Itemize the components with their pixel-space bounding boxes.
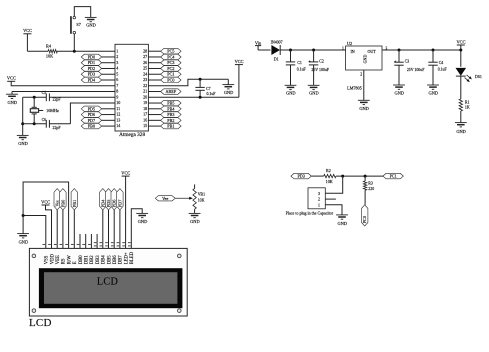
node crystal top	[33, 96, 36, 99]
svg-text:6: 6	[116, 77, 118, 82]
svg-text:C1: C1	[297, 61, 302, 65]
node C7 bottom	[199, 96, 202, 99]
svg-text:OUT: OUT	[367, 49, 376, 54]
svg-text:PD7: PD7	[117, 200, 122, 208]
svg-text:4: 4	[116, 66, 118, 71]
svg-text:C6: C6	[42, 118, 46, 122]
wire pin 19 stub	[148, 102, 160, 104]
node PB1	[161, 123, 182, 129]
svg-text:GND: GND	[286, 91, 296, 96]
wire DB2 stub	[90, 234, 92, 248]
ground (header)	[336, 215, 348, 226]
svg-text:12: 12	[116, 112, 120, 117]
wire junction a to header	[325, 176, 342, 193]
wire VCC stem	[26, 34, 28, 51]
power flag VCC (backlight)	[121, 171, 130, 249]
node junction a	[341, 175, 344, 178]
diode D1 IN4007	[271, 40, 283, 61]
svg-text:15: 15	[143, 123, 147, 128]
wire RS stub	[62, 210, 64, 249]
node PB0	[81, 123, 102, 129]
svg-text:LM7805: LM7805	[347, 85, 362, 90]
node crystal bottom	[33, 122, 36, 125]
resistor R3	[363, 181, 374, 191]
wire pin 4 stub	[102, 67, 115, 69]
wire header pin 2 stub	[325, 198, 336, 200]
svg-text:VEE: VEE	[56, 255, 61, 264]
svg-text:Place to plug in the Capacitor: Place to plug in the Capacitor	[286, 210, 334, 215]
svg-text:R2: R2	[326, 168, 331, 173]
svg-text:GND: GND	[19, 239, 29, 244]
svg-text:PC0: PC0	[167, 77, 174, 82]
svg-text:25V 100uF: 25V 100uF	[311, 68, 329, 72]
power flag VCC (pin 7)	[7, 76, 16, 82]
ground (C4)	[427, 85, 439, 95]
svg-text:21: 21	[143, 89, 147, 94]
svg-text:25V 100uF: 25V 100uF	[407, 68, 425, 72]
wire pin 15 stub	[148, 125, 160, 127]
svg-text:BLED: BLED	[130, 251, 135, 264]
node PB2	[161, 118, 182, 124]
node PD1	[81, 60, 102, 66]
svg-text:PD6: PD6	[112, 200, 117, 208]
svg-text:GND: GND	[456, 129, 466, 134]
wire pin 28 stub	[148, 50, 160, 52]
svg-text:16: 16	[143, 117, 147, 122]
svg-text:VDD: VDD	[50, 253, 55, 264]
svg-text:GND: GND	[359, 106, 369, 111]
svg-text:28: 28	[143, 48, 147, 53]
power flag VCC (reset pull-up)	[23, 28, 32, 34]
svg-text:PB2: PB2	[167, 118, 174, 123]
svg-text:PC5: PC5	[167, 49, 174, 54]
wire pin 24 stub	[148, 73, 160, 75]
svg-text:19: 19	[143, 100, 147, 105]
node PB4	[161, 106, 182, 112]
ground (C2)	[308, 85, 320, 95]
wire XTAL1 net (pin 9)	[23, 96, 115, 98]
svg-text:D1: D1	[274, 57, 279, 62]
capacitor C6 22pF	[42, 118, 62, 130]
wire pin 2 stub	[102, 56, 115, 58]
svg-text:3: 3	[116, 60, 118, 65]
svg-text:LCD: LCD	[97, 276, 118, 287]
ground (pin 22)	[222, 79, 234, 95]
ground (pin 8)	[6, 92, 18, 105]
svg-text:22pF: 22pF	[53, 126, 62, 130]
node PB1 (LCD E)	[71, 189, 77, 210]
header J1 (capacitor socket)	[308, 188, 325, 209]
node PC5	[161, 48, 182, 54]
node PC0	[161, 77, 182, 83]
capacitor C2 100uF	[308, 50, 330, 85]
svg-text:14: 14	[116, 123, 120, 128]
svg-text:R/W: R/W	[67, 255, 72, 264]
svg-text:DB5: DB5	[107, 255, 112, 265]
svg-text:PD2: PD2	[88, 66, 95, 71]
svg-text:DB1: DB1	[85, 255, 90, 265]
node Vee (pot)	[155, 196, 175, 201]
node PD4	[81, 77, 102, 83]
svg-text:RS: RS	[62, 258, 67, 264]
svg-text:18: 18	[143, 106, 147, 111]
LED DS1	[456, 68, 482, 82]
node VCC rail	[459, 49, 462, 52]
svg-text:LCD: LCD	[29, 317, 52, 329]
svg-text:10K: 10K	[198, 199, 205, 203]
pushbutton S7	[70, 16, 81, 34]
wire BLED to GND	[131, 209, 142, 249]
wire pin 14 stub	[102, 125, 115, 127]
IC U1 Atmega 328	[115, 44, 148, 138]
svg-text:VCC: VCC	[41, 199, 50, 204]
node PC1 (cap meter)	[383, 173, 404, 179]
svg-text:PB1: PB1	[72, 200, 77, 207]
svg-text:PC0: PC0	[362, 216, 367, 223]
ground (switch)	[85, 17, 97, 27]
wire DB1 stub	[85, 234, 87, 248]
svg-text:23: 23	[143, 77, 147, 82]
resistor VR1 10K	[193, 184, 205, 209]
svg-text:DB0: DB0	[79, 255, 84, 265]
svg-text:26: 26	[143, 60, 147, 65]
power input Vin	[255, 40, 262, 50]
svg-text:C3: C3	[405, 60, 410, 64]
svg-text:DS1: DS1	[475, 75, 482, 79]
node PD5 (LCD)	[105, 189, 111, 210]
power flag VCC (LCD VDD)	[41, 199, 50, 205]
node PD5	[81, 106, 102, 112]
svg-text:PB0: PB0	[60, 200, 65, 207]
svg-text:2: 2	[318, 198, 320, 202]
svg-text:DB4: DB4	[102, 255, 107, 265]
capacitor C7 0.1uF	[195, 79, 216, 97]
wire DB4 stub	[102, 210, 104, 249]
node rail bottom	[21, 122, 24, 125]
node C4 top	[432, 49, 435, 52]
svg-text:7: 7	[116, 83, 118, 88]
node PD3	[81, 71, 102, 77]
svg-text:1: 1	[342, 46, 344, 50]
node C2 top	[312, 49, 315, 52]
svg-text:IN4007: IN4007	[271, 40, 283, 44]
svg-text:PD5: PD5	[88, 106, 95, 111]
svg-text:C4: C4	[439, 61, 444, 65]
svg-text:PD6: PD6	[88, 112, 95, 117]
ground (VR1)	[189, 213, 201, 224]
svg-text:PD4: PD4	[100, 199, 105, 207]
wire pin 18 stub	[148, 108, 160, 110]
wire GND drop	[22, 216, 24, 234]
ground (U2)	[358, 100, 370, 111]
svg-text:PC1: PC1	[390, 174, 397, 179]
svg-text:+: +	[394, 59, 397, 64]
svg-text:0.1uF: 0.1uF	[297, 68, 307, 72]
node AREF	[161, 89, 182, 95]
svg-text:220: 220	[368, 187, 374, 191]
svg-text:GND: GND	[429, 90, 439, 95]
wire header pin 1 to GND	[325, 205, 342, 215]
node PD4 (LCD)	[100, 189, 106, 210]
wire DB6 stub	[113, 210, 115, 249]
wire pin 16 stub	[148, 119, 160, 121]
svg-text:E: E	[73, 261, 78, 264]
wire pin 13 stub	[102, 119, 115, 121]
node PC1	[161, 71, 182, 77]
svg-text:2: 2	[116, 54, 118, 59]
wire VEE stub	[56, 210, 58, 249]
wire pin 20 to VCC	[148, 96, 239, 98]
svg-text:1: 1	[116, 48, 118, 53]
svg-text:C7: C7	[206, 87, 211, 91]
wire pin 21 stub	[148, 91, 160, 93]
svg-text:27: 27	[143, 54, 147, 59]
resistor R4	[46, 44, 58, 59]
svg-text:17: 17	[143, 112, 147, 117]
svg-text:2: 2	[360, 73, 362, 77]
node PB0 (LCD RS)	[60, 189, 66, 210]
wire pin 26 stub	[148, 62, 160, 64]
wire pin 12 stub	[102, 114, 115, 116]
node PB5	[161, 100, 182, 106]
label LCD	[29, 317, 52, 329]
capacitor C1 0.1uF	[286, 50, 307, 85]
wire U2 OUT to VCC	[382, 49, 461, 51]
wire R1 to GND	[460, 111, 462, 123]
wire R2 to PC1	[336, 175, 383, 177]
svg-text:16MHz: 16MHz	[46, 108, 59, 113]
svg-text:GND: GND	[190, 219, 200, 224]
svg-text:5: 5	[116, 71, 118, 76]
wire Vin to D1	[258, 49, 270, 51]
svg-text:PB1: PB1	[167, 124, 174, 129]
svg-text:AREF: AREF	[166, 89, 177, 94]
wire reset net to pin 1	[27, 50, 115, 52]
ground (crystal)	[17, 135, 29, 146]
svg-text:GND: GND	[18, 141, 28, 146]
svg-text:VCC: VCC	[121, 171, 130, 176]
svg-text:LED+: LED+	[124, 252, 129, 264]
svg-text:PD0: PD0	[88, 54, 95, 59]
svg-text:S7: S7	[76, 22, 80, 27]
svg-text:Vee: Vee	[162, 196, 168, 201]
svg-text:10K: 10K	[46, 54, 53, 59]
node PD7 (LCD)	[117, 189, 123, 210]
svg-text:GND: GND	[86, 23, 96, 28]
svg-text:PD4: PD4	[88, 77, 95, 82]
wire pin 3 stub	[102, 62, 115, 64]
wire DB0 stub	[79, 234, 81, 248]
wire VR1 to GND	[194, 209, 196, 213]
svg-text:PC2: PC2	[167, 66, 174, 71]
node PC0 (cap meter)	[362, 205, 368, 226]
svg-text:13: 13	[116, 117, 120, 122]
svg-text:25: 25	[143, 66, 147, 71]
resistor R1	[459, 99, 470, 111]
node C7 top	[199, 78, 202, 81]
wire R/W ground loop	[23, 182, 69, 248]
svg-text:R3: R3	[368, 182, 373, 186]
node junction b	[364, 175, 367, 178]
svg-text:R1: R1	[465, 100, 470, 104]
wire Vee wiper arrow	[175, 197, 193, 200]
ground (R1)	[455, 123, 467, 135]
svg-text:PD3: PD3	[88, 72, 95, 77]
wire DB5 stub	[108, 210, 110, 249]
svg-text:U2: U2	[347, 41, 352, 46]
svg-text:1K: 1K	[465, 106, 470, 110]
regulator U2 LM7805	[342, 41, 387, 90]
svg-text:DB6: DB6	[113, 255, 118, 265]
resistor R2	[324, 168, 336, 184]
svg-text:22pF: 22pF	[53, 98, 62, 102]
node PD2	[81, 66, 102, 72]
svg-text:VCC: VCC	[456, 39, 465, 44]
wire PD3 to R2	[311, 175, 323, 177]
wire pin 11 stub	[102, 108, 115, 110]
wire DB7 stub	[119, 210, 121, 249]
svg-text:GND: GND	[338, 221, 348, 226]
svg-text:22: 22	[143, 83, 147, 88]
svg-text:8: 8	[116, 89, 118, 94]
wire pin 17 stub	[148, 114, 160, 116]
svg-text:VCC: VCC	[235, 59, 244, 64]
node PD7	[81, 118, 102, 124]
power flag VCC (AVCC)	[235, 59, 244, 97]
svg-text:PD5: PD5	[106, 200, 111, 208]
svg-text:10K: 10K	[326, 179, 333, 184]
svg-text:GND: GND	[395, 90, 405, 95]
ground (LCD VSS)	[17, 234, 29, 245]
svg-text:PB3: PB3	[167, 112, 174, 117]
node C3 top	[398, 49, 401, 52]
power flag VCC (5V rail)	[456, 39, 465, 66]
node PC3	[161, 60, 182, 66]
svg-text:GND: GND	[224, 90, 234, 95]
svg-text:0.1uF: 0.1uF	[438, 68, 448, 72]
svg-text:C2: C2	[319, 59, 324, 63]
svg-text:VCC: VCC	[23, 28, 32, 33]
wire pin 6 stub	[102, 79, 115, 81]
wire pin 23 stub	[148, 79, 160, 81]
wire GND to pin 8	[12, 91, 115, 93]
wire VCC to pin 7	[11, 81, 115, 85]
svg-text:9: 9	[116, 94, 118, 99]
wire U2 GND	[363, 70, 365, 100]
node PC4	[161, 54, 182, 60]
svg-text:+: +	[308, 58, 311, 63]
svg-text:Vin: Vin	[255, 40, 262, 45]
label plug note	[286, 210, 334, 215]
svg-text:3: 3	[318, 192, 320, 196]
node C1 top	[289, 49, 292, 52]
wire D1 to U2 IN	[280, 49, 346, 51]
wire R3 to PC0	[364, 190, 366, 205]
svg-text:GND: GND	[8, 100, 18, 105]
wire XTAL2 net (pin 10)	[23, 103, 115, 124]
wire DB3 stub	[96, 234, 98, 248]
node PC2	[161, 66, 182, 72]
svg-text:PC1: PC1	[167, 72, 174, 77]
svg-text:GND: GND	[138, 219, 148, 224]
wire pin 25 stub	[148, 67, 160, 69]
wire pin 22 to GND	[148, 79, 228, 85]
svg-text:DB2: DB2	[90, 255, 95, 265]
svg-text:Atmega 328: Atmega 328	[119, 132, 145, 138]
wire LED to R1	[460, 76, 462, 99]
svg-text:GND: GND	[363, 55, 368, 64]
wire pin 5 stub	[102, 73, 115, 75]
svg-text:IN: IN	[350, 49, 354, 54]
svg-text:VCC: VCC	[7, 76, 16, 81]
node PD6	[81, 112, 102, 118]
node VSS/GND junction	[22, 214, 25, 217]
ground (backlight)	[136, 213, 148, 224]
capacitor C3 100uF	[394, 50, 425, 85]
node Vee (LCD)	[54, 189, 60, 210]
wire pin 27 stub	[148, 56, 160, 58]
label LCD pin numbers	[43, 243, 131, 246]
svg-text:PC4: PC4	[167, 54, 174, 59]
svg-text:10: 10	[116, 100, 120, 105]
svg-text:24: 24	[143, 71, 147, 76]
svg-text:1: 1	[318, 203, 320, 207]
wire switch top to GND	[74, 7, 90, 18]
svg-text:DB3: DB3	[96, 255, 101, 265]
wire junction b to R3	[364, 176, 366, 181]
svg-text:20: 20	[143, 94, 147, 99]
wire switch to reset	[73, 34, 75, 51]
svg-text:PB5: PB5	[167, 100, 174, 105]
wire VDD to VCC	[46, 205, 52, 248]
ground (C1)	[285, 85, 297, 95]
svg-text:PD3: PD3	[297, 174, 304, 179]
svg-text:VR1: VR1	[198, 193, 205, 197]
crystal Y1 16MHz	[30, 97, 59, 124]
LCD module	[29, 248, 187, 316]
node PD3 (cap meter)	[291, 173, 312, 179]
node PD6 (LCD)	[111, 189, 117, 210]
svg-text:PB4: PB4	[167, 106, 174, 111]
svg-text:11: 11	[116, 106, 120, 111]
capacitor C4 0.1uF	[428, 50, 447, 85]
svg-text:0.1uF: 0.1uF	[207, 92, 217, 96]
svg-text:PD1: PD1	[88, 60, 95, 65]
svg-text:C5: C5	[42, 91, 46, 95]
node PB3	[161, 112, 182, 118]
svg-text:PC3: PC3	[167, 60, 174, 65]
svg-text:GND: GND	[309, 91, 319, 96]
svg-text:VSS: VSS	[45, 255, 50, 264]
svg-text:PB0: PB0	[88, 124, 95, 129]
node PD0	[81, 54, 102, 60]
wire VSS to GND	[23, 216, 46, 249]
node reset junction	[73, 50, 76, 53]
capacitor C5 22pF	[42, 91, 62, 101]
svg-text:DB7: DB7	[119, 255, 124, 265]
svg-text:PD7: PD7	[88, 118, 95, 123]
svg-text:Vee: Vee	[55, 200, 60, 206]
wire ground rail	[22, 97, 24, 135]
wire E stub	[73, 210, 75, 249]
ground (C3)	[393, 85, 405, 95]
